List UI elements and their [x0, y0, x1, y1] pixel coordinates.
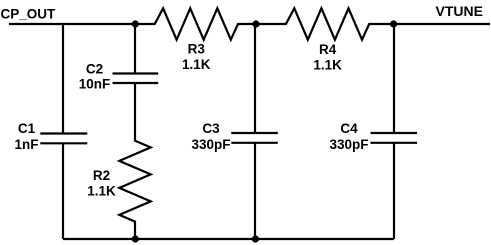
svg-text:1.1K: 1.1K [313, 57, 342, 72]
svg-text:VTUNE: VTUNE [436, 3, 483, 19]
svg-text:C3: C3 [202, 121, 220, 136]
svg-text:R4: R4 [319, 42, 337, 57]
svg-text:1.1K: 1.1K [87, 184, 116, 199]
svg-text:1nF: 1nF [14, 137, 38, 152]
svg-text:330pF: 330pF [329, 137, 368, 152]
svg-text:330pF: 330pF [191, 137, 230, 152]
svg-text:CP_OUT: CP_OUT [1, 6, 57, 21]
svg-text:1.1K: 1.1K [182, 57, 211, 72]
svg-text:C1: C1 [18, 121, 36, 136]
svg-text:R2: R2 [93, 168, 110, 183]
svg-text:C2: C2 [86, 62, 103, 77]
svg-text:C4: C4 [340, 121, 358, 136]
svg-text:R3: R3 [188, 42, 206, 57]
svg-text:10nF: 10nF [79, 77, 111, 92]
